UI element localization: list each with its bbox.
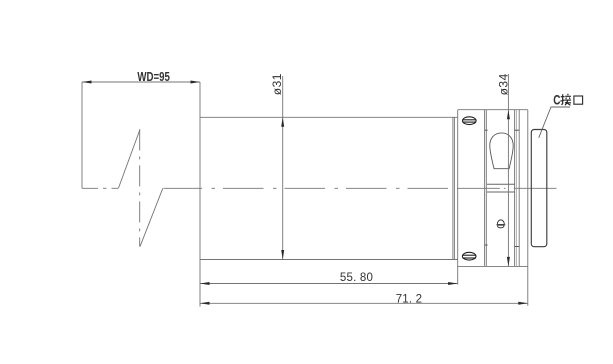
svg-text:71. 2: 71. 2 [396, 293, 423, 305]
71.2 right arrow [518, 302, 528, 305]
svg-text:WD=95: WD=95 [137, 70, 170, 84]
dimension dia34 line [507, 74, 509, 110]
dimension WD=95 right arrow [191, 81, 201, 84]
tick bottom left [485, 244, 488, 246]
label C-mount glyph kou [574, 96, 583, 104]
55.80 left arrow [200, 282, 210, 285]
C-mount thread cylinder [531, 130, 547, 247]
dimension 71.2 line [200, 302, 528, 304]
optical axis right segment [457, 187, 557, 189]
focus ring bottom edge [458, 265, 528, 267]
focus ring left edge + extension [457, 110, 459, 285]
label C-mount glyph jie [560, 94, 571, 106]
barrel end line 2 [453, 117, 455, 259]
dia31 bottom arrow [281, 250, 284, 260]
thumbscrew window (pear shape) [490, 133, 513, 169]
lens front face / extension line [199, 82, 201, 307]
break upper diagonal [119, 129, 141, 188]
set screw bottom [462, 252, 476, 260]
dia31 top arrow [281, 117, 284, 127]
barrel end line 1 [452, 117, 454, 259]
dimension WD=95 line [82, 81, 200, 83]
rear flange face + extension [527, 110, 529, 306]
barrel bottom edge [200, 259, 458, 261]
focus ring inner line d [515, 110, 517, 267]
detent screw symbol [496, 220, 506, 228]
optical axis main segment [164, 187, 458, 189]
focus ring inner line c [514, 110, 516, 267]
focus ring inner line e [518, 110, 520, 267]
object plane line [81, 82, 83, 188]
svg-text:C: C [553, 92, 560, 107]
slot bottom line [487, 191, 515, 193]
break vertical dash-dot [139, 129, 141, 246]
svg-text:55. 80: 55. 80 [340, 272, 373, 284]
dia34 top arrow [507, 110, 510, 120]
dimension WD=95 left arrow [82, 81, 92, 84]
svg-text:ø31: ø31 [270, 73, 284, 95]
dia34 bottom arrow [507, 257, 510, 267]
focus ring top edge [458, 109, 528, 111]
optical axis left segment [82, 187, 119, 189]
leader line C-mount [539, 107, 570, 138]
barrel top edge [200, 116, 458, 118]
71.2 left arrow [200, 302, 210, 305]
55.80 right arrow [448, 282, 458, 285]
dimension dia31 line [282, 76, 284, 260]
slot top line [487, 183, 515, 185]
svg-text:ø34: ø34 [496, 73, 510, 95]
tick bottom right [515, 246, 520, 248]
focus ring inner line b [485, 110, 487, 267]
break lower diagonal [140, 188, 163, 246]
dimension 55.80 line [200, 283, 458, 285]
set screw top [463, 117, 477, 125]
tick top right [515, 129, 520, 131]
tick top left [485, 129, 488, 131]
focus ring inner line a [484, 110, 486, 267]
